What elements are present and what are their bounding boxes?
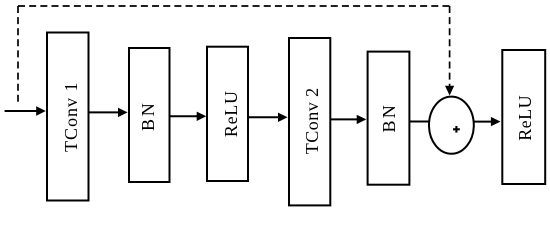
svg-text:TConv 1: TConv 1 bbox=[61, 82, 81, 152]
svg-text:TConv 2: TConv 2 bbox=[302, 88, 322, 154]
svg-text:ReLU: ReLU bbox=[515, 95, 535, 140]
svg-text:ReLU: ReLU bbox=[221, 91, 241, 137]
svg-text:BN: BN bbox=[138, 103, 158, 131]
svg-text:BN: BN bbox=[379, 105, 399, 132]
